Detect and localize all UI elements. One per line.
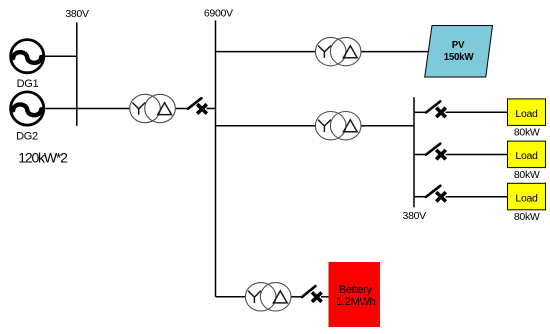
svg-text:80kW: 80kW	[514, 169, 540, 181]
svg-text:Load: Load	[515, 192, 538, 204]
svg-text:150kW: 150kW	[444, 52, 475, 63]
svg-text:Load: Load	[515, 108, 538, 120]
svg-text:DG2: DG2	[16, 130, 38, 142]
svg-text:80kW: 80kW	[514, 211, 540, 223]
svg-text:6900V: 6900V	[204, 8, 233, 20]
svg-text:1.2MWh: 1.2MWh	[336, 296, 375, 308]
svg-text:Load: Load	[515, 150, 538, 162]
svg-text:380V: 380V	[403, 210, 427, 222]
svg-text:DG1: DG1	[17, 78, 39, 90]
svg-text:380V: 380V	[65, 8, 89, 20]
svg-text:PV: PV	[452, 40, 465, 51]
svg-text:Bettery: Bettery	[339, 284, 373, 296]
svg-text:120kW*2: 120kW*2	[18, 150, 68, 166]
svg-text:80kW: 80kW	[514, 127, 540, 139]
